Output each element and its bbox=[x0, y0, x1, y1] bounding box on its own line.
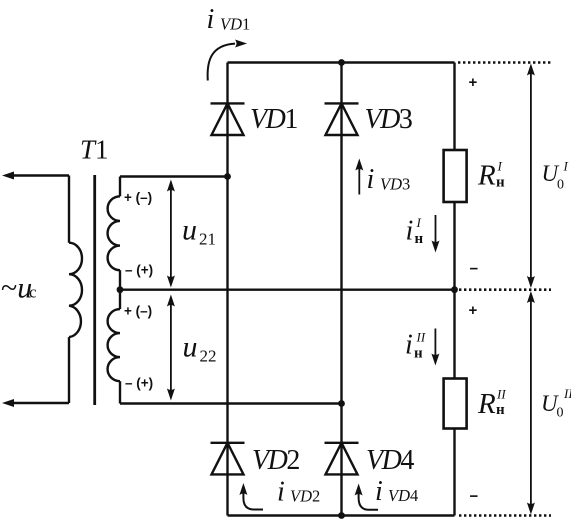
svg-text:I: I bbox=[497, 159, 503, 174]
transformer secondary winding u22 bbox=[108, 290, 120, 404]
wire middle branch VD3/VD4 vertical bbox=[340, 63, 342, 516]
svg-text:+ (–): + (–) bbox=[124, 304, 152, 319]
svg-text:II: II bbox=[496, 387, 506, 402]
diode VD3 bbox=[325, 103, 359, 135]
svg-text:0: 0 bbox=[557, 405, 564, 420]
arrow U_0^II (double) bbox=[527, 291, 535, 515]
wire bottom rail bbox=[228, 514, 455, 516]
dotted line top right bbox=[458, 61, 551, 64]
dotted line bottom right bbox=[459, 514, 551, 517]
resistor R_H_I bbox=[444, 150, 467, 202]
svg-text:н: н bbox=[496, 175, 505, 191]
transformer T1 primary winding bbox=[69, 176, 82, 404]
wire right load branch vertical bbox=[453, 63, 455, 516]
svg-text:0: 0 bbox=[557, 177, 564, 192]
svg-text:+: + bbox=[469, 302, 478, 319]
svg-text:VD3: VD3 bbox=[365, 104, 412, 135]
diode VD2 bbox=[211, 443, 245, 475]
arrow u21 (double) bbox=[167, 180, 175, 288]
svg-text:R: R bbox=[477, 160, 496, 192]
node middle rail / load branch bbox=[451, 286, 458, 293]
svg-text:u: u bbox=[183, 331, 198, 364]
svg-text:VD4: VD4 bbox=[366, 445, 414, 476]
svg-text:I: I bbox=[563, 159, 569, 174]
arrow i_H^I (down) bbox=[432, 215, 440, 253]
svg-text:i: i bbox=[207, 4, 215, 35]
svg-text:u: u bbox=[182, 213, 197, 246]
arrow u22 (double) bbox=[167, 295, 175, 401]
svg-text:T1: T1 bbox=[80, 135, 109, 165]
svg-text:−: − bbox=[470, 488, 479, 505]
node u22 bottom / VD4 anode bbox=[338, 400, 345, 407]
arrow i_VD3 (up) bbox=[355, 159, 363, 195]
arrow i_VD2 (curved) bbox=[239, 483, 263, 510]
node at VD1 anode / u21 top bbox=[224, 173, 231, 180]
svg-text:II: II bbox=[563, 386, 571, 401]
svg-text:– (+): – (+) bbox=[125, 263, 153, 278]
arrow i_H^II (down) bbox=[431, 329, 439, 366]
svg-text:22: 22 bbox=[200, 347, 217, 366]
svg-text:i: i bbox=[375, 476, 383, 507]
resistor R_H_II bbox=[444, 379, 467, 429]
wire primary bottom lead with arrow bbox=[12, 402, 69, 404]
wire u22 bottom to VD4 anode bbox=[120, 402, 342, 404]
svg-text:i: i bbox=[367, 164, 375, 195]
svg-text:i: i bbox=[405, 329, 413, 360]
svg-text:с: с bbox=[29, 283, 37, 302]
wire u21 top to VD1 anode bbox=[120, 175, 228, 177]
arrow U_0^I (double) bbox=[527, 64, 535, 289]
svg-text:II: II bbox=[416, 329, 426, 344]
arrow i_VD4 (curved) bbox=[355, 484, 378, 510]
dotted line middle right bbox=[459, 288, 551, 291]
svg-text:i: i bbox=[406, 215, 414, 246]
svg-text:VD2: VD2 bbox=[252, 445, 299, 476]
svg-text:R: R bbox=[477, 388, 496, 420]
svg-text:н: н bbox=[496, 402, 505, 418]
svg-text:~u: ~u bbox=[1, 272, 32, 305]
svg-text:VD3: VD3 bbox=[380, 175, 410, 194]
arrow i_VD1 (curved) bbox=[208, 40, 247, 81]
diode VD4 bbox=[325, 443, 359, 475]
svg-text:VD1: VD1 bbox=[220, 15, 250, 34]
arrowheads for primary leads bbox=[2, 172, 14, 408]
svg-text:+ (–): + (–) bbox=[124, 190, 152, 205]
svg-text:н: н bbox=[415, 231, 424, 247]
svg-text:н: н bbox=[414, 346, 423, 362]
node bottom rail / VD4 bbox=[338, 512, 345, 519]
node center tap bbox=[117, 286, 124, 293]
svg-text:i: i bbox=[277, 476, 285, 507]
svg-text:VD2: VD2 bbox=[290, 487, 320, 506]
wire left branch VD1/VD2 vertical bbox=[226, 63, 228, 516]
svg-text:−: − bbox=[470, 261, 479, 278]
transformer secondary winding u21 bbox=[108, 177, 120, 290]
wire primary top lead with arrow bbox=[12, 174, 69, 176]
diode VD1 bbox=[211, 103, 245, 135]
svg-text:VD4: VD4 bbox=[388, 486, 418, 505]
svg-text:I: I bbox=[416, 215, 422, 230]
node at top rail / VD3 bbox=[338, 59, 345, 66]
transformer core bbox=[93, 175, 96, 405]
svg-text:21: 21 bbox=[199, 230, 216, 249]
svg-text:– (+): – (+) bbox=[125, 376, 153, 391]
wire middle rail center tap bbox=[120, 289, 455, 291]
wire top rail bbox=[228, 61, 455, 63]
svg-text:VD1: VD1 bbox=[250, 104, 297, 135]
svg-text:+: + bbox=[469, 74, 478, 91]
